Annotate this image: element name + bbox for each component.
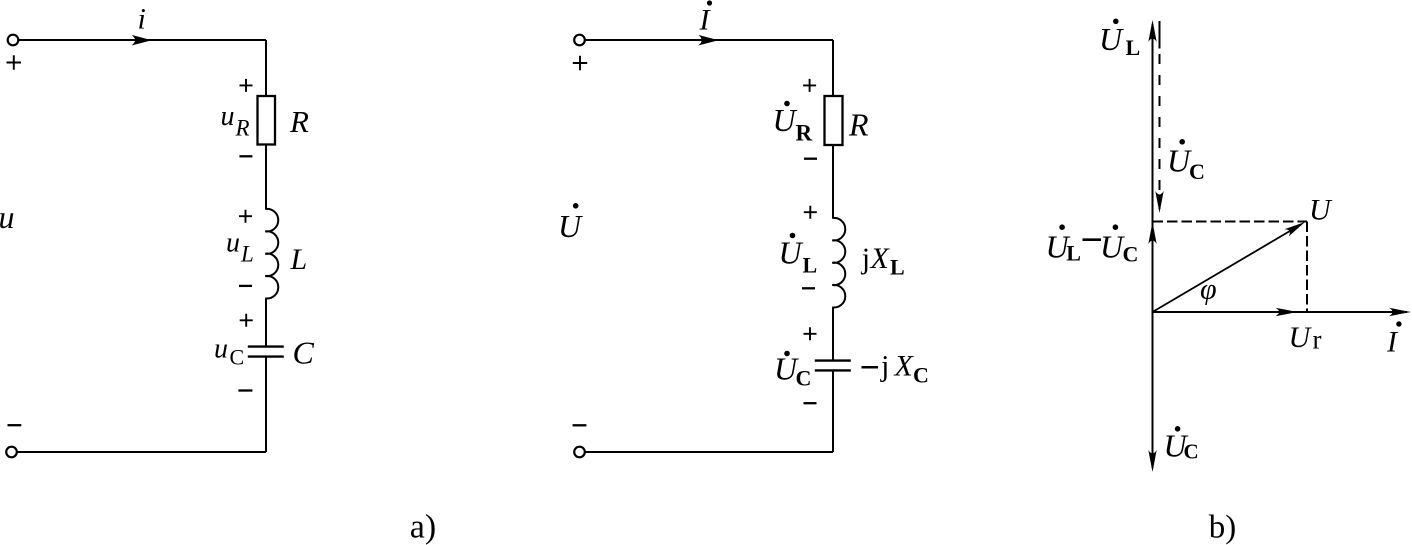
arrowhead UC down xyxy=(1148,450,1156,472)
minus below resistor (a) xyxy=(239,155,252,157)
svg-text:a): a) xyxy=(410,509,436,545)
svg-text:L: L xyxy=(1066,241,1081,266)
svg-text:φ: φ xyxy=(1200,273,1217,306)
wire resistor to inductor (mid) xyxy=(832,145,834,218)
wire capacitor to bottom (a) xyxy=(265,357,267,452)
arrowhead U diagonal xyxy=(1284,218,1307,236)
inductor jXL (mid) xyxy=(832,218,845,308)
plus above resistor (a) xyxy=(240,79,253,92)
svg-text:r: r xyxy=(1313,325,1322,355)
capacitor C plate bottom (a) xyxy=(248,355,284,357)
minus below inductor (a) xyxy=(239,285,252,287)
phasor UL vertical line xyxy=(1152,24,1154,312)
wire right vertical, top to resistor (mid) xyxy=(832,40,834,96)
svg-text:L: L xyxy=(803,252,818,277)
plus above capacitor (mid) xyxy=(804,327,817,340)
capacitor C plate top (a) xyxy=(248,345,284,347)
terminal bottom-left (mid) xyxy=(574,447,585,458)
svg-text:C: C xyxy=(1189,159,1205,184)
arrowhead UL minus UC up xyxy=(1148,222,1156,244)
svg-text:L: L xyxy=(240,242,254,267)
inductor L (a) xyxy=(265,209,278,299)
phasor UC downward line xyxy=(1152,312,1154,468)
svg-text:C: C xyxy=(230,345,245,370)
svg-text:R: R xyxy=(289,104,309,139)
svg-text:U: U xyxy=(1289,321,1313,354)
capacitor plate bottom (mid) xyxy=(815,369,851,371)
svg-text:R: R xyxy=(848,106,869,142)
axis I horizontal xyxy=(1153,311,1408,313)
wire bottom horizontal (a) xyxy=(17,451,266,453)
svg-text:C: C xyxy=(796,366,812,391)
terminal top-left (mid) xyxy=(574,35,585,46)
wire right vertical, top to resistor (a) xyxy=(265,40,267,96)
wire top horizontal (a) xyxy=(19,39,267,41)
minus sign source bottom (a) xyxy=(8,424,22,426)
svg-text:u: u xyxy=(226,227,240,258)
terminal top-left (a) xyxy=(8,35,19,46)
svg-text:X: X xyxy=(870,242,891,275)
current arrow I (mid) xyxy=(698,35,718,46)
wire capacitor to bottom (mid) xyxy=(832,370,834,452)
arrowhead UL up xyxy=(1148,20,1156,42)
dashed projection horizontal xyxy=(1153,221,1308,223)
svg-text:C: C xyxy=(1123,241,1139,266)
svg-text:u: u xyxy=(214,334,228,365)
current arrow i (a) xyxy=(132,35,152,46)
resistor R (a) xyxy=(258,96,276,145)
plus sign source top (mid) xyxy=(573,56,587,70)
svg-text:C: C xyxy=(913,362,929,387)
arrowhead axis I right xyxy=(1389,308,1411,316)
minus below inductor (mid) xyxy=(802,287,815,289)
minus sign source bottom (mid) xyxy=(573,424,587,426)
plus sign source top (a) xyxy=(7,55,22,70)
wire top horizontal (mid) xyxy=(585,39,833,41)
plus above capacitor (a) xyxy=(240,314,253,327)
wire resistor to inductor (a) xyxy=(265,145,267,210)
svg-text:u: u xyxy=(0,199,15,235)
arrowhead Ur right xyxy=(1276,308,1298,316)
resistor R (mid) xyxy=(825,96,843,145)
svg-text:C: C xyxy=(293,335,315,371)
svg-text:U: U xyxy=(1309,194,1333,227)
dashed UC line beside UL xyxy=(1159,21,1161,49)
svg-text:u: u xyxy=(221,101,235,132)
terminal bottom-left (a) xyxy=(6,447,17,458)
plus above inductor (mid) xyxy=(804,206,817,219)
minus below resistor (mid) xyxy=(804,158,817,160)
minus below capacitor (mid) xyxy=(804,402,817,404)
capacitor plate top (mid) xyxy=(815,359,851,361)
svg-text:R: R xyxy=(796,121,813,146)
svg-text:X: X xyxy=(894,349,915,382)
svg-text:j: j xyxy=(861,242,870,275)
wire inductor to capacitor (a) xyxy=(265,298,267,346)
svg-text:i: i xyxy=(138,3,146,36)
plus above inductor (a) xyxy=(239,210,252,223)
wire inductor to capacitor (mid) xyxy=(832,307,834,360)
svg-text:b): b) xyxy=(1209,510,1237,545)
label -jX_C xyxy=(862,366,879,369)
phasor U diagonal xyxy=(1153,225,1302,313)
svg-text:j: j xyxy=(880,349,889,382)
svg-text:U: U xyxy=(1099,21,1124,57)
plus above resistor (mid) xyxy=(803,79,816,92)
svg-text:R: R xyxy=(235,116,250,141)
arrowhead dashed UC down xyxy=(1155,191,1163,213)
minus below capacitor (a) xyxy=(238,389,252,391)
svg-text:U: U xyxy=(773,102,798,138)
svg-text:C: C xyxy=(1184,440,1199,464)
svg-text:L: L xyxy=(890,254,905,279)
svg-text:L: L xyxy=(1126,35,1141,60)
svg-text:U: U xyxy=(1100,229,1125,265)
svg-text:U: U xyxy=(779,235,804,271)
wire bottom horizontal (mid) xyxy=(585,451,833,453)
svg-text:L: L xyxy=(290,243,308,276)
dashed projection vertical xyxy=(1306,222,1308,312)
svg-text:U: U xyxy=(558,208,583,244)
